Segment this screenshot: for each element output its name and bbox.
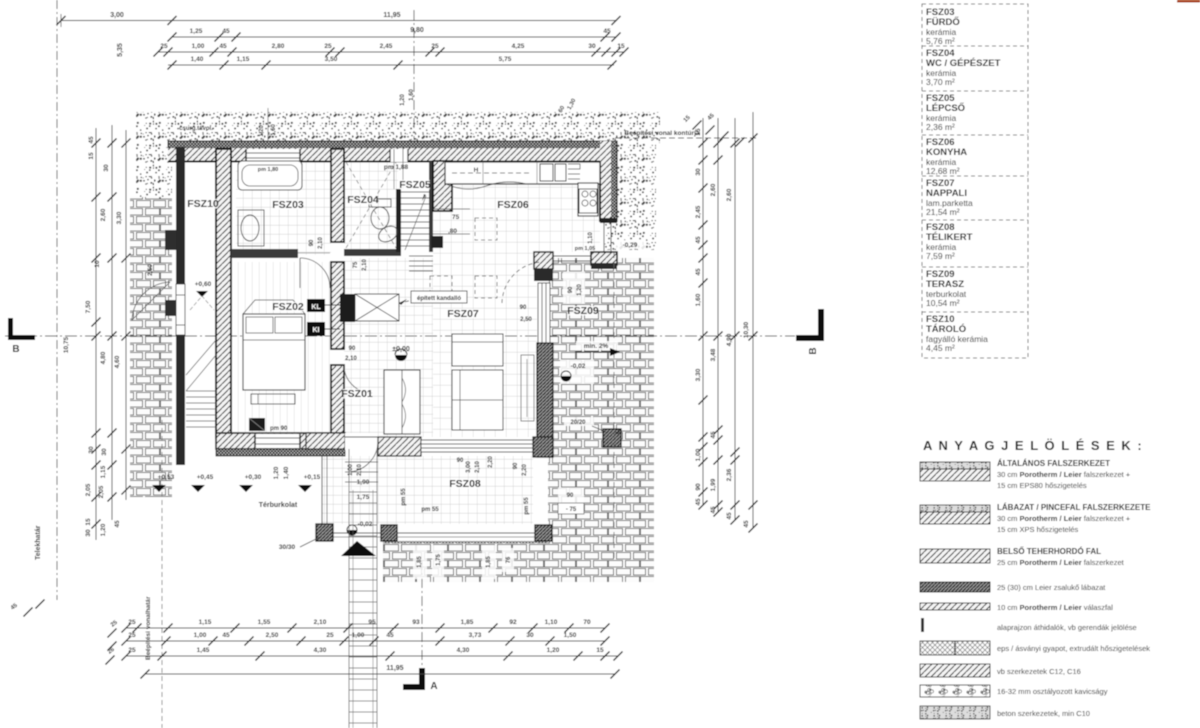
terrace post 20/20 [603,429,621,447]
outer wall top: masonry hatch [168,148,617,161]
fireplace dark block [340,294,355,322]
basin FSZ04 [376,223,400,245]
entry FSZ01 floor [345,365,433,437]
room label FSZ09 [568,306,598,316]
svg-text:90: 90 [349,346,356,352]
svg-text:90: 90 [513,462,519,469]
sofa FSZ07 [452,334,503,366]
svg-text:30: 30 [103,164,110,172]
insulation strip below south wall [216,449,345,456]
bottom dimension row 1 [126,627,605,629]
wall between FSZ10 and FSZ02/03 [216,149,231,438]
svg-text:9,80: 9,80 [410,27,424,34]
svg-text:45: 45 [222,632,230,639]
svg-text:90: 90 [568,286,574,293]
svg-text:,80: ,80 [448,228,457,235]
svg-text:70: 70 [583,619,591,626]
svg-text:2,10: 2,10 [318,237,324,249]
svg-text:3,73: 3,73 [469,632,482,639]
svg-text:1,50: 1,50 [564,632,577,639]
red corner strip top-right [1177,0,1200,3]
svg-text:76: 76 [506,556,512,563]
legend entry 9: kavicsagy [920,685,990,697]
svg-text:2,10: 2,10 [345,356,357,362]
svg-text:45: 45 [695,498,702,506]
svg-text:pm 55: pm 55 [524,497,530,515]
svg-text:1,99: 1,99 [710,478,717,491]
svg-text:45: 45 [386,632,394,639]
kitchen side counter + stove [578,183,598,216]
room label FSZ01 [342,389,372,399]
svg-text:4,60: 4,60 [114,355,121,368]
svg-text:45: 45 [114,520,121,528]
svg-text:15 cm XPS hőszigetelés: 15 cm XPS hőszigetelés [997,525,1079,534]
svg-text:1,60: 1,60 [695,293,702,306]
telikert post SE [535,525,552,541]
bath window centerline and dims [267,108,269,142]
svg-text:2,10: 2,10 [362,259,368,271]
svg-text:1,20: 1,20 [577,284,583,296]
svg-text:15: 15 [596,647,604,654]
section marker B left [8,318,35,340]
fireplace arrow [399,299,418,303]
svg-text:30: 30 [88,446,95,454]
east wall of living/telikert [537,343,553,457]
svg-text:Beépítési vonal kontúrja: Beépítési vonal kontúrja [624,130,700,137]
svg-text:1,20: 1,20 [259,125,265,137]
svg-text:15: 15 [617,43,625,50]
telikert south window band [421,440,533,452]
outer wall top: insulation strip [168,141,617,148]
kitchen sink [540,164,553,181]
stair walk line [405,196,426,250]
top dimension row 1 [61,20,617,22]
corner post NE of telikert [534,252,553,269]
svg-text:1,15: 1,15 [237,56,250,63]
svg-text:1,60: 1,60 [271,124,277,136]
svg-text:2,10: 2,10 [475,461,481,473]
terrace small dim box 90/75 [558,488,584,514]
svg-text:-0,02: -0,02 [571,363,586,370]
bottom dimension row 3 [126,655,618,657]
telikert glazing west side [321,456,323,524]
svg-text:csurg.távol.: csurg.távol. [179,126,213,132]
south wall under FSZ10/FSZ02 [216,433,345,449]
legend entry 8: vb szerkezetek [920,664,990,677]
svg-text:4,45 m²: 4,45 m² [926,343,955,353]
section marker A bottom [403,668,425,690]
property line (telekhatar) dash-dot vertical left [56,0,58,600]
svg-text:eps / ásványi gyapot, extrudál: eps / ásványi gyapot, extrudált hősziget… [997,644,1150,653]
svg-text:2,05: 2,05 [85,483,92,496]
window in south wall below FSZ02 [255,434,300,448]
svg-text:KL: KL [311,304,321,311]
svg-text:épített kandalló: épített kandalló [417,296,461,302]
svg-text:90: 90 [695,483,702,491]
right vertical dimension lines [702,118,704,505]
svg-text:90: 90 [309,239,315,246]
svg-text:2,50: 2,50 [520,317,532,323]
FSZ03 door opening + swing [298,252,330,254]
svg-text:3,00: 3,00 [466,461,472,473]
svg-text:1,85: 1,85 [461,619,474,626]
top dimension row 2 [172,36,616,38]
svg-text:25: 25 [160,43,168,50]
svg-text:FSZ08: FSZ08 [449,478,481,490]
bench under bed [251,394,295,404]
kitchen/living FSZ06 FSZ07 floor tiles [433,162,600,252]
wall stub between FSZ05 and kitchen [433,161,452,211]
flue lines above stairs [393,162,395,189]
wall east of FSZ02/FSZ03 (to hall) [331,149,344,242]
section line A vertical bottom [421,560,423,668]
shower corner FSZ04 dashed [346,162,396,248]
boiler dark square FSZ02 [249,418,265,431]
svg-text:3,70 m²: 3,70 m² [926,77,955,87]
terrace dashed build line [613,252,615,560]
svg-text:25 cm Porotherm / Leier falsze: 25 cm Porotherm / Leier falszerkezet [997,558,1125,567]
telikert post SW [316,524,333,541]
wall south-east of kitchen [591,252,617,265]
building line kontur dashed top right [615,137,757,139]
svg-text:1,15: 1,15 [100,465,107,478]
bed FSZ02 [243,314,305,390]
svg-text:75: 75 [452,214,460,221]
svg-text:1,20: 1,20 [400,94,406,106]
svg-text:30 cm Porotherm / Leier falsze: 30 cm Porotherm / Leier falszerkezet + [997,470,1131,479]
svg-text:30/30: 30/30 [279,544,296,551]
svg-text:KI: KI [313,327,320,334]
svg-text:93: 93 [412,619,420,626]
svg-text:H: H [474,167,479,174]
bedroom FSZ02 parquet [236,262,331,433]
svg-text:30: 30 [588,43,596,50]
svg-text:1,15: 1,15 [199,619,212,626]
FSZ10 roof dashes [190,296,214,310]
svg-text:1,20: 1,20 [273,466,280,479]
east window/door of kitchen [603,223,605,252]
svg-text:1,75: 1,75 [436,554,442,566]
svg-text:FSZ02: FSZ02 [272,301,304,313]
terrace door dashed arc [502,262,541,303]
svg-text:75: 75 [353,261,359,268]
top dimension row 3 [158,51,624,53]
gate arc on left paving [132,282,170,320]
bottom dimension row 4 overall [145,673,615,675]
headboard shelf [243,300,305,314]
svg-text:11,95: 11,95 [386,665,403,672]
svg-text:pm 90: pm 90 [270,426,288,432]
legend entry 4: leier zsaluko labazat [920,582,990,592]
dining table dashed [475,218,497,240]
svg-text:4,25: 4,25 [512,43,525,50]
svg-text:12,68 m²: 12,68 m² [926,166,960,176]
wall south of FSZ04 [344,249,401,256]
room label FSZ07 [448,309,478,319]
legend entry 5: valaszfal [920,603,990,610]
svg-text:90: 90 [457,458,464,464]
svg-text:1,10: 1,10 [588,232,594,244]
kitchen counter along top [445,162,600,184]
narrow gap above stairs [390,149,408,162]
legend entry 10: beton szerkezetek [920,706,990,719]
ground stipple right of house [604,143,656,250]
svg-text:1,55: 1,55 [258,619,271,626]
svg-text:10 cm Porotherm / Leier válasz: 10 cm Porotherm / Leier válaszfal [997,603,1113,612]
walkway ladder section band [349,449,377,728]
svg-text:25: 25 [324,43,332,50]
svg-text:3,30: 3,30 [695,368,702,381]
svg-text:45: 45 [743,520,750,528]
KL black box [307,299,325,312]
svg-text:7,59 m²: 7,59 m² [926,251,955,261]
hood wavy under counter left [446,182,526,189]
svg-text:1,25: 1,25 [190,28,203,35]
svg-text:3,30: 3,30 [116,211,123,224]
svg-text:90: 90 [520,305,527,311]
svg-text:+0,45: +0,45 [197,474,214,481]
svg-text:95: 95 [368,619,376,626]
tv bench dashes FSZ07 [521,355,534,421]
svg-text:1,20: 1,20 [547,647,560,654]
svg-text:vb szerkezetek C12, C16: vb szerkezetek C12, C16 [997,667,1081,676]
svg-text:2,50: 2,50 [266,632,279,639]
svg-text:pm 1,05: pm 1,05 [575,246,595,252]
room label FSZ08 [450,479,480,489]
svg-text:1,85: 1,85 [417,556,423,568]
svg-text:Telekhatár: Telekhatár [35,525,42,560]
svg-text:2,80: 2,80 [272,43,285,50]
svg-text:45: 45 [695,236,702,244]
stairs FSZ05 treads [401,192,429,246]
svg-text:45: 45 [88,136,95,144]
svg-text:2,45: 2,45 [380,43,393,50]
telikert post S mid [381,525,397,541]
svg-text:2,60: 2,60 [710,183,717,196]
svg-text:alaprajzon áthidalók, vb geren: alaprajzon áthidalók, vb gerendák jelölé… [997,623,1137,632]
svg-text:2,60: 2,60 [100,208,107,221]
svg-text:-0,29: -0,29 [623,242,638,249]
legend entry 3: belso teherhordo fal [920,549,990,563]
svg-text:30: 30 [695,168,702,176]
svg-text:45: 45 [603,28,611,35]
svg-text:pm 55: pm 55 [421,507,439,513]
svg-text:2,10: 2,10 [314,619,327,626]
south wall FSZ01 segment [306,433,345,449]
svg-text:15: 15 [85,518,92,526]
terrace dims rotated [563,272,585,304]
svg-text:45: 45 [710,431,717,439]
svg-text:3,50: 3,50 [325,56,338,63]
svg-text:15: 15 [695,128,702,136]
svg-text:30: 30 [526,632,534,639]
svg-text:min. 2%: min. 2% [584,343,609,350]
svg-text:92: 92 [509,619,517,626]
FSZ10 interior stair [186,340,216,427]
svg-text:5,35: 5,35 [117,43,124,57]
svg-text:+0,53: +0,53 [158,474,175,481]
svg-text:25: 25 [128,619,136,626]
svg-text:45: 45 [726,512,733,520]
svg-text:+0,60: +0,60 [195,281,212,288]
paving brick strip left of house [130,197,172,497]
svg-text:4,90: 4,90 [726,333,733,346]
top dimension row 4 [168,64,614,66]
svg-text:90: 90 [567,493,574,499]
svg-text:30 cm Porotherm / Leier falsze: 30 cm Porotherm / Leier falszerkezet + [997,514,1131,523]
entrance arrow triangle [341,541,376,556]
hall floor tiles [344,258,433,365]
south wall telikert SW corner [378,437,421,456]
room schedule table [922,4,1028,358]
svg-text:10,75: 10,75 [63,336,70,353]
east window of living room [538,283,550,343]
svg-text:15 cm EPS80 hőszigetelés: 15 cm EPS80 hőszigetelés [997,481,1087,490]
svg-text:21,54 m²: 21,54 m² [926,207,960,217]
svg-text:A N Y A G J E L Ö L É S E K :: A N Y A G J E L Ö L É S E K : [923,438,1143,453]
svg-text:- 75: - 75 [566,507,577,513]
svg-text:ÁLTALÁNOS FALSZERKEZET: ÁLTALÁNOS FALSZERKEZET [997,459,1110,468]
left vertical dimension lines [95,128,97,540]
svg-text:2,50: 2,50 [148,264,154,276]
svg-text:25: 25 [431,43,439,50]
svg-text:3,48: 3,48 [710,348,717,361]
svg-text:B: B [808,347,819,354]
svg-text:45: 45 [695,268,702,276]
svg-text:1,10: 1,10 [545,619,558,626]
svg-text:1,45: 1,45 [197,647,210,654]
svg-text:2,60: 2,60 [726,188,733,201]
svg-text:45: 45 [710,506,717,514]
bath FSZ03 floor tiles [236,162,331,255]
legend entry 7: hoszigetelesek [920,641,990,655]
section marker B right [796,309,824,341]
window over bathtub in top wall [246,149,300,162]
svg-text:1,85: 1,85 [486,556,492,568]
top-right corner ticks [693,121,702,130]
svg-text:2,36: 2,36 [726,468,733,481]
svg-text:1,00: 1,00 [194,632,207,639]
svg-text:1,60: 1,60 [409,89,415,101]
entry steps outside [345,461,378,463]
svg-text:2,36 m²: 2,36 m² [926,122,955,132]
svg-text:25: 25 [128,632,136,639]
svg-text:LÁBAZAT / PINCEFAL FALSZERKEZE: LÁBAZAT / PINCEFAL FALSZERKEZETE [997,503,1151,512]
window between corner posts [553,255,591,257]
svg-text:25: 25 [326,632,334,639]
room label FSZ10 [188,199,218,209]
wc FSZ04 floor tiles [344,162,398,252]
svg-text:2,20: 2,20 [522,464,528,476]
wall between FSZ04 and FSZ05 [396,189,401,252]
svg-text:10,30: 10,30 [743,321,750,338]
room label FSZ05 [400,180,430,190]
ground stipple left of house top corner [136,143,172,197]
svg-text:+0,30: +0,30 [245,474,262,481]
svg-text:B: B [12,344,19,355]
entry door opening [345,433,378,450]
legend entry 6: athidalok jelolese [921,618,924,632]
wall between FSZ03 and FSZ02 [231,249,298,258]
svg-text:FSZ03: FSZ03 [272,199,304,211]
legend entry 2: labazat/pincefal [920,505,990,512]
svg-text:45: 45 [222,28,230,35]
svg-text:2,20: 2,20 [488,456,494,468]
svg-text:10: 10 [94,260,101,268]
ground stipple band along top of house [136,112,660,143]
svg-text:FSZ01: FSZ01 [341,388,373,400]
svg-text:pm 1,88: pm 1,88 [384,164,409,171]
epitett kandallo label [411,291,467,303]
svg-text:4,30: 4,30 [457,647,470,654]
svg-text:-0,02: -0,02 [358,521,373,528]
svg-text:beton szerkezetek, min C10: beton szerkezetek, min C10 [997,709,1090,718]
svg-text:45: 45 [219,43,227,50]
outer wall west of FSZ10 (dark) [176,147,185,284]
svg-text:FSZ05: FSZ05 [399,179,431,191]
outer wall east of kitchen [600,141,611,222]
svg-text:FSZ06: FSZ06 [497,199,529,211]
corner post SE of telikert upper [533,437,553,457]
svg-text:2,45: 2,45 [695,205,702,218]
svg-text:1,40: 1,40 [191,56,204,63]
svg-text:20/20: 20/20 [570,420,586,426]
window dims over walkway bricks [413,545,427,579]
svg-text:1,40: 1,40 [283,466,290,479]
svg-text:4,30: 4,30 [314,647,327,654]
svg-text:15: 15 [88,152,95,160]
svg-text:1,00: 1,00 [695,448,702,461]
svg-text:BELSŐ TEHERHORDÓ FAL: BELSŐ TEHERHORDÓ FAL [997,547,1101,556]
svg-text:10,54 m²: 10,54 m² [926,298,960,308]
svg-text:Térburkolat: Térburkolat [259,502,298,509]
svg-text:FSZ09: FSZ09 [567,305,599,317]
svg-text:25 (30) cm Leier zsalukő lábaz: 25 (30) cm Leier zsalukő lábazat [997,583,1106,592]
room label FSZ04 [348,195,378,205]
svg-text:2,10: 2,10 [357,464,363,476]
svg-text:1,20: 1,20 [100,523,107,536]
svg-text:pm 1,80: pm 1,80 [258,167,278,173]
walkway brick band south of house [383,541,548,547]
svg-text:5,75: 5,75 [499,56,512,63]
dark blocks on left wall [165,230,176,250]
svg-text:1,90: 1,90 [357,479,370,486]
room label FSZ03 [273,200,303,210]
svg-text:30: 30 [85,529,92,537]
small pillar south of stair [431,236,443,248]
washbasin FSZ03 [238,210,264,246]
svg-text:+0,15: +0,15 [304,474,321,481]
wardrobe FSZ01 [384,370,420,434]
svg-text:25: 25 [128,647,136,654]
FSZ01 door arc to hall [344,365,372,393]
KI black box [307,322,325,336]
svg-text:7,50: 7,50 [85,300,92,313]
svg-text:30: 30 [101,448,108,456]
telikert FSZ08 floor [322,456,533,524]
toilet FSZ04 [369,199,391,207]
svg-text:FSZ04: FSZ04 [347,194,379,206]
terrace FSZ09 brick paving [548,258,654,582]
svg-text:16-32 mm osztályozott kavicság: 16-32 mm osztályozott kavicságy [997,687,1108,696]
svg-text:11,95: 11,95 [383,12,400,19]
svg-text:A: A [430,681,437,692]
svg-text:1,00: 1,00 [352,632,365,639]
svg-text:4,80: 4,80 [100,351,107,364]
wall east of FSZ05 stair [429,161,433,252]
svg-text:2,05: 2,05 [98,485,105,498]
legend entry 1: altalanos falszerkezet [920,462,990,469]
